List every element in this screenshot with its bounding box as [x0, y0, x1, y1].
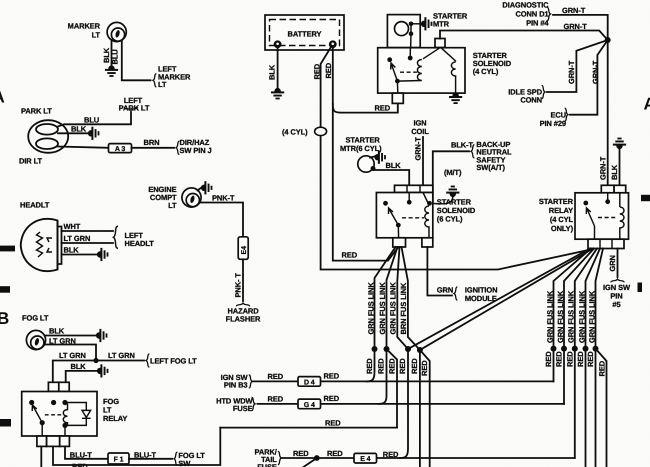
wire fuse link 2 [387, 247, 398, 349]
wire relay fuse link 2 [564, 249, 594, 349]
svg-text:GRN-T: GRN-T [562, 6, 586, 15]
svg-text:BLK: BLK [71, 125, 87, 134]
ground M/T [446, 186, 459, 198]
ground park lt [88, 127, 100, 140]
svg-text:BLK: BLK [64, 246, 80, 255]
page mark right [638, 283, 643, 293]
svg-text:LT: LT [168, 201, 177, 210]
relay coil [620, 193, 624, 239]
fog relay top terminals [48, 382, 58, 391]
svg-text:MTR: MTR [433, 20, 450, 29]
page tick left [0, 246, 15, 252]
svg-text:DIAGNOSTIC: DIAGNOSTIC [502, 1, 549, 10]
svg-text:MARKER: MARKER [68, 22, 101, 31]
svg-text:GRN FUS LINK: GRN FUS LINK [587, 290, 596, 343]
splice dot 1 [372, 346, 378, 352]
ground starter relay BLK [613, 138, 626, 150]
relay contact dots [583, 201, 588, 206]
svg-text:(6 CYL): (6 CYL) [437, 215, 463, 224]
ground starter mtr 6cyl [370, 157, 375, 158]
svg-text:CONN D1: CONN D1 [515, 10, 548, 19]
fuse G4 [298, 399, 321, 409]
wire BLK motor to solenoid [375, 170, 410, 185]
svg-text:LT GRN: LT GRN [108, 351, 135, 360]
wire to motor ground [411, 23, 422, 25]
svg-text:GRN-T: GRN-T [567, 60, 576, 84]
svg-text:RED: RED [420, 360, 429, 376]
wire BLU to A3 connector [58, 147, 108, 148]
wire relay fuse link 5 [596, 249, 604, 349]
solenoid pull-in coil [397, 48, 440, 81]
solenoid bottom tabs [393, 238, 406, 247]
svg-text:LT: LT [158, 80, 167, 89]
brace fog lt sw [174, 452, 177, 465]
svg-text:GRN-T: GRN-T [591, 60, 600, 84]
svg-text:FUSE: FUSE [257, 463, 277, 467]
brace ecu [565, 108, 568, 121]
wire fuse link 1 [375, 247, 396, 349]
svg-text:A 3: A 3 [115, 146, 126, 153]
svg-text:RED: RED [388, 358, 397, 374]
wire RED below dot3 [400, 349, 408, 458]
splice dot r4 [583, 346, 589, 352]
wire RED jog rv5 [596, 349, 607, 467]
svg-text:PARK LT: PARK LT [21, 107, 52, 116]
svg-text:BLK: BLK [268, 64, 277, 80]
splice dot r3 [572, 346, 578, 352]
wire RED below dot4 [419, 350, 421, 467]
wire relay fuse link 3 [575, 249, 597, 349]
solenoid dashed link [400, 71, 418, 73]
battery terminal negative [274, 40, 282, 48]
wire pivot to bottom tab [396, 81, 398, 93]
brace ign sw pin b3 [249, 375, 252, 388]
svg-text:BATTERY: BATTERY [288, 30, 322, 39]
lamp PARK/DIR assembly [28, 120, 68, 153]
wire BRN to dir/haz switch [132, 147, 175, 149]
wire LT GRN [62, 242, 114, 244]
solenoid contact dots [387, 57, 392, 62]
brace idle spd conn [542, 85, 545, 98]
svg-text:RED: RED [365, 358, 374, 374]
brace left headlt (tall) [114, 226, 119, 248]
svg-text:LEFT FOG LT: LEFT FOG LT [150, 357, 197, 366]
splice dot 2 [384, 346, 390, 352]
wire RED row E4 [282, 457, 575, 459]
svg-text:BRN: BRN [144, 138, 160, 147]
wire RED jog dot2 [387, 349, 398, 428]
relay dashed link [598, 217, 616, 219]
wire relay fuse link 4 [586, 249, 601, 349]
svg-text:GRN FUS LINK: GRN FUS LINK [389, 282, 398, 335]
svg-text:FOG LT: FOG LT [22, 314, 49, 323]
svg-text:PNK-T: PNK-T [212, 194, 235, 203]
ground starter mtr 4cyl [421, 17, 433, 30]
svg-text:RED: RED [342, 251, 358, 260]
ground fog lt 2 [97, 364, 109, 377]
brace left park lt [124, 107, 137, 110]
svg-text:RED: RED [375, 104, 391, 113]
brace ign sw pin 5 [611, 279, 624, 282]
svg-text:GRN FUS LINK: GRN FUS LINK [545, 290, 554, 343]
svg-text:BLU-T: BLU-T [70, 450, 93, 459]
battery terminal positive [329, 40, 337, 48]
svg-text:GRN FUS LINK: GRN FUS LINK [556, 290, 565, 343]
solenoid switch arm [389, 208, 399, 225]
fuse E4 [354, 453, 377, 463]
fuse F1 [108, 453, 129, 464]
svg-text:BLU: BLU [84, 116, 99, 125]
svg-text:FLASHER: FLASHER [226, 315, 261, 324]
wire relay diagonal to middle dot3 [408, 249, 590, 350]
svg-text:RED: RED [565, 351, 574, 367]
headlight terminal hooks [47, 238, 52, 252]
relay diode [65, 403, 91, 426]
brace back-up [471, 145, 474, 158]
wire RED from relay to row3 riser [53, 428, 220, 465]
svg-text:A: A [0, 88, 5, 107]
wire brush link [409, 24, 412, 58]
svg-text:SW(A/T): SW(A/T) [476, 163, 505, 172]
wire pivot to bottom tab [397, 225, 399, 238]
fog relay bottom terminals [37, 436, 47, 446]
wire RED jog dot4 [420, 350, 430, 467]
svg-text:RED: RED [312, 63, 321, 79]
wire RED rv1 to D4 row [553, 349, 555, 382]
svg-text:RED: RED [324, 62, 333, 78]
solenoid coil [423, 193, 429, 238]
svg-text:LT GRN: LT GRN [64, 234, 91, 243]
wire RED rv4 [585, 349, 587, 467]
svg-text:MTR(6 CYL): MTR(6 CYL) [340, 144, 382, 153]
svg-text:BLK-T: BLK-T [451, 140, 474, 149]
wire RED below dot2 [379, 349, 387, 404]
svg-text:RELAY: RELAY [549, 206, 573, 215]
svg-text:B: B [0, 309, 9, 328]
wire RED rv5 [595, 349, 597, 467]
svg-text:RED: RED [410, 358, 419, 374]
wire BLU-T to F1 [65, 446, 108, 458]
battery box [265, 15, 344, 50]
svg-text:RED: RED [293, 449, 309, 458]
wire PNK-T to E4 fuse [201, 203, 243, 238]
svg-text:HEADLT: HEADLT [125, 239, 155, 248]
wire WHT [62, 230, 114, 232]
wire GRN-T junction to ECU [570, 40, 608, 115]
brace ignition module [454, 287, 457, 300]
junction node (GRN-T) [605, 37, 611, 43]
svg-text:GRN: GRN [608, 255, 617, 271]
svg-text:BLK: BLK [49, 327, 65, 336]
relay switch arm [32, 405, 42, 423]
wire motor link into solenoid [409, 48, 411, 58]
svg-text:LT: LT [92, 31, 101, 40]
starter motor housing (4 cyl) [387, 15, 420, 48]
ground marker lt [105, 65, 118, 77]
brace left fog lt [146, 354, 149, 367]
ground fog lt 1 [96, 329, 108, 342]
svg-text:D 4: D 4 [304, 379, 315, 386]
svg-text:HEADLT: HEADLT [20, 201, 50, 210]
wire BLK to ground [62, 254, 98, 256]
wire BLK battery to ground [277, 47, 279, 89]
svg-text:E4: E4 [241, 246, 248, 255]
svg-text:FUSE: FUSE [233, 404, 253, 413]
svg-text:E 4: E 4 [360, 456, 370, 463]
svg-text:RED: RED [597, 360, 606, 376]
svg-text:RED: RED [268, 372, 284, 381]
svg-text:GRN FUS LINK: GRN FUS LINK [366, 282, 375, 335]
svg-text:RELAY: RELAY [103, 414, 127, 423]
relay FOG LT RELAY box [22, 392, 97, 437]
ground solenoid 4cyl [449, 93, 462, 105]
starter solenoid box (6 cyl) [376, 193, 432, 238]
solenoid dashed link [402, 217, 424, 219]
connector A3 [109, 144, 132, 153]
svg-text:RED: RED [268, 395, 284, 404]
wire RED branch to 4cyl solenoid [333, 103, 398, 112]
wire RED rv2 to G4 row [563, 349, 565, 404]
svg-text:BRN FUS LINK: BRN FUS LINK [399, 282, 408, 334]
wire BLU from marker bulb to left marker lt [122, 41, 151, 80]
wire GRN-T junction to idle spd conn [547, 40, 608, 92]
svg-text:PIN #29: PIN #29 [540, 119, 566, 128]
solenoid switch arm [391, 63, 398, 81]
svg-text:GRN FUS LINK: GRN FUS LINK [577, 290, 586, 343]
wire LT GRN fog bulb down to junction [46, 345, 97, 362]
fuse D4 [298, 377, 321, 387]
wire GRN-T solenoid to diagnostic junction [440, 31, 608, 41]
relay switch arm [586, 208, 594, 226]
splice dot 4 [417, 347, 423, 353]
ground engine compt lt [198, 188, 202, 191]
wire BLU to left park lt [58, 112, 131, 127]
wire pivot to bottom [42, 423, 65, 436]
svg-text:LT GRN: LT GRN [49, 337, 76, 346]
solenoid contact dots [383, 201, 388, 206]
svg-text:PARK LT: PARK LT [119, 104, 150, 113]
wire dot to tab [607, 193, 609, 202]
splice dot r1 [551, 346, 557, 352]
wire RED battery right feed [333, 47, 398, 261]
relay contact dots [29, 400, 34, 405]
svg-text:CONN: CONN [520, 96, 542, 105]
ground battery [271, 88, 284, 100]
svg-text:GRN-T: GRN-T [414, 137, 423, 161]
svg-text:PIN B3: PIN B3 [224, 381, 248, 390]
wire BLK relay to ground [66, 371, 97, 382]
svg-text:(4 CYL): (4 CYL) [282, 128, 308, 137]
svg-text:GRN-T: GRN-T [564, 22, 588, 31]
relay coil [63, 404, 67, 426]
wire BLK park lamp to ground [58, 132, 88, 134]
wire RED rv3 to E4 row [574, 349, 576, 458]
splice dot r5 [593, 346, 599, 352]
svg-text:COIL: COIL [411, 127, 429, 136]
svg-text:RED: RED [324, 394, 340, 403]
svg-text:(4 CYL): (4 CYL) [473, 67, 499, 76]
splice dot 3 [405, 346, 411, 352]
page tick left 2 [0, 286, 10, 293]
wire relay diagonal to middle dot4 [420, 249, 593, 351]
wire fuse link 4 (BRN) [402, 247, 420, 350]
svg-text:GRN FUS LINK: GRN FUS LINK [567, 290, 576, 343]
svg-text:#5: #5 [612, 300, 620, 309]
wire dot2 to tab [408, 193, 410, 203]
headlight filament zigzag [37, 232, 43, 257]
solenoid hold-in coil [441, 48, 456, 93]
wire RED battery left feed (to starter relay) [321, 47, 591, 270]
relay STARTER RELAY box [575, 193, 629, 239]
svg-text:BLU-T: BLU-T [134, 450, 157, 459]
relay bottom terminal strip [588, 239, 624, 248]
page tick right [641, 195, 650, 201]
svg-text:(M/T): (M/T) [444, 168, 462, 177]
starter solenoid box (4 cyl) [378, 48, 465, 93]
wire GRN to ign sw [617, 249, 619, 278]
brace hazard flasher [236, 303, 249, 306]
svg-text:RED: RED [398, 358, 407, 374]
svg-text:STARTER: STARTER [539, 197, 574, 206]
wire fuse link 3 [397, 247, 408, 349]
lamp engine compt lt [182, 188, 201, 207]
svg-text:WHT: WHT [64, 222, 81, 231]
fuse E4 (hazard) [238, 237, 248, 259]
relay dashed link [45, 414, 62, 416]
svg-text:GRN: GRN [437, 286, 453, 295]
svg-text:(4 CYL: (4 CYL [550, 215, 574, 224]
wire BLK-T backup switch [433, 151, 469, 203]
wire relay fuse link 1 [554, 249, 592, 349]
lamp headlight housing [21, 219, 58, 271]
svg-text:BLK: BLK [386, 161, 402, 170]
junction dot fog [93, 358, 98, 363]
svg-text:RED: RED [586, 351, 595, 367]
svg-text:RED: RED [383, 450, 399, 459]
brush dots [409, 22, 414, 27]
connector oval (4 CYL) [315, 127, 327, 135]
headlight face [58, 222, 62, 270]
brace dir/haz [176, 141, 179, 154]
svg-text:MODULE: MODULE [465, 294, 497, 303]
solenoid terminal tab (top) [435, 39, 445, 48]
svg-text:GRN-T: GRN-T [598, 156, 607, 180]
svg-text:RED: RED [325, 418, 341, 427]
svg-text:RED: RED [377, 358, 386, 374]
splice dot r2 [561, 346, 567, 352]
wire BLK from marker bulb [111, 41, 113, 66]
wire GRN-T diagnostic to junction [553, 15, 608, 40]
page tick left 3 [0, 419, 11, 427]
ground headlt [97, 248, 109, 261]
junction dot park/tail row [314, 455, 320, 461]
solenoid top terminal strip [395, 185, 433, 192]
wire BLK fog bulb to ground [46, 335, 97, 337]
wire down from relay to page edge [40, 446, 42, 467]
svg-text:RED: RED [324, 372, 340, 381]
lamp MARKER LT [107, 22, 126, 41]
starter motor circle (6 cyl) [358, 156, 374, 172]
wire PNK-T to hazard flasher [242, 259, 244, 301]
svg-text:RED: RED [327, 449, 343, 458]
svg-text:A: A [644, 95, 650, 114]
solenoid bottom tab [392, 93, 403, 103]
svg-text:GRN FUS LINK: GRN FUS LINK [378, 282, 387, 335]
svg-text:F 1: F 1 [114, 456, 124, 463]
svg-text:PNK- T: PNK- T [234, 273, 243, 298]
brace htd wdw fuse [252, 397, 255, 410]
wire RED row G4 [258, 403, 565, 405]
motor armature circle [395, 22, 409, 36]
svg-text:SW PIN J: SW PIN J [180, 146, 212, 155]
svg-text:ONLY): ONLY) [551, 224, 574, 233]
svg-text:RED: RED [576, 351, 585, 367]
brace diagnostic [547, 7, 550, 20]
svg-text:BLK: BLK [71, 362, 87, 371]
wire BLK [619, 149, 621, 186]
wire BLU-T to fog lt sw [129, 458, 172, 460]
wire M/T curve to solenoid [434, 197, 453, 204]
wire GRN-T junction down to starter relay [607, 40, 609, 185]
svg-text:BLU: BLU [110, 49, 119, 64]
wire LT GRN row to left fog lt [53, 361, 144, 383]
wire RED row 3 [220, 427, 397, 429]
lamp fog lt [26, 330, 45, 349]
svg-text:RED: RED [544, 351, 553, 367]
svg-text:RED: RED [72, 462, 88, 467]
svg-text:BLK: BLK [610, 164, 619, 180]
svg-text:G 4: G 4 [304, 402, 315, 409]
brace left marker lt [153, 74, 156, 87]
svg-text:PIN #4: PIN #4 [526, 19, 549, 28]
relay top terminals [601, 185, 614, 193]
svg-text:LT GRN: LT GRN [59, 351, 86, 360]
wire RED row D4 [253, 380, 554, 382]
svg-text:RED: RED [555, 351, 564, 367]
svg-text:DIR LT: DIR LT [19, 157, 43, 166]
wire arm to bottom [594, 226, 596, 239]
wire GRN to ignition module [427, 247, 452, 296]
wire diagonal from dot [304, 458, 317, 467]
brace park/tail fuse [278, 451, 281, 464]
wire GRN-T ign coil to solenoid [422, 137, 424, 185]
wire RED to D4 row [367, 349, 375, 381]
